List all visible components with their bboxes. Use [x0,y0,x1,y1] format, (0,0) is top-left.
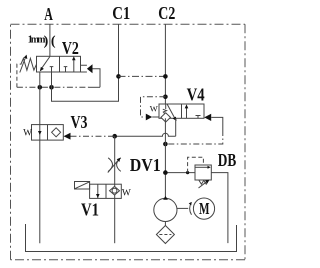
wire DB feed [165,172,195,174]
V2 spring (adjustable, left) [21,58,36,70]
junction dot [38,85,43,90]
tank line [26,224,237,252]
svg-text:V1: V1 [81,200,99,220]
svg-text:W: W [23,129,32,139]
junction dot pilot tap [163,95,168,100]
wire V4 port2 down [175,118,177,136]
V4 left pilot triangle [146,114,152,121]
junction dot [163,142,168,147]
wire DB pilot (dashed) [188,157,204,172]
enclosure boundary (power unit) [11,24,246,259]
V1 solenoid [75,182,90,190]
svg-text:C2: C2 [158,3,175,23]
svg-text:M: M [199,199,210,218]
svg-text:V2: V2 [62,38,79,58]
motor rotation arc [190,202,192,215]
wire V4 right pilot [211,117,223,130]
V2 up-arrow path (right box) [73,60,75,73]
valve V2 body [37,56,81,72]
V3 down-arrow flow [38,131,42,135]
pump P [154,198,177,221]
wire DV1 line down [114,136,116,243]
svg-text:V4: V4 [187,84,205,104]
DB internal arrow [195,166,207,168]
valve V4 body [159,104,204,118]
V4 check valve (left box) [165,104,167,109]
V3 check diamond (right box) [52,128,61,137]
V4 up-arrow (right box) [186,107,188,118]
valve V1 body [90,184,122,198]
svg-text:)(: )( [44,34,59,49]
svg-text:V3: V3 [71,112,88,132]
V2 spring adjust arrow [20,58,25,72]
V4 right pilot triangle [204,114,211,121]
wire V2 port1 down through V3 to tank [39,72,41,243]
wire spring drain (dashed) [17,64,22,87]
wire main pressure line [164,118,166,198]
wire C1-C2 link (dash-dot) [119,75,166,77]
wire A vertical [49,24,51,56]
junction dot pilot tap [186,171,189,174]
junction dot C1 link [116,74,121,79]
motor M [193,198,214,219]
V2 pilot actuator (right) [81,65,87,72]
V2 blocked port T (right box) [64,67,68,72]
svg-text:DB: DB [218,150,237,170]
junction dot [163,74,168,79]
filter F [156,226,174,244]
svg-text:W: W [122,188,131,198]
throttle DV1 [108,158,121,172]
V4 blocked port T [196,116,201,119]
wire V3 pilot (dash-dot) [71,135,115,137]
wire C2 vertical [164,24,166,104]
junction dot [49,85,54,90]
junction dot [163,170,168,175]
svg-text:DV1: DV1 [130,155,161,175]
V1 check diamond with ball [110,186,120,195]
svg-text:W: W [150,104,158,114]
svg-text:A: A [44,4,53,24]
junction dot [112,134,117,139]
wire crossover horizontal with hop [115,133,176,136]
V1 flow line with down arrow [97,184,99,198]
motor shaft [177,207,188,209]
wire pump to filter [164,222,166,226]
V2 flow diagonal with arrow [41,57,50,69]
wire V4 left pilot (dash-dot) [141,97,166,117]
wire V2 pilot loop [93,69,101,88]
wire pilot run (dashed) [17,86,89,88]
V2 blocked port T (left box) [50,67,54,72]
DB spring below [199,180,209,184]
V3 pilot triangle (right) [64,133,71,140]
V4 diagonal path [167,104,175,118]
wire DB out to tank [211,173,228,244]
svg-text:C1: C1 [112,3,130,23]
valve V3 body [32,125,64,141]
wire V2 port2 to C1 [52,24,119,101]
relief valve DB body [195,165,211,180]
